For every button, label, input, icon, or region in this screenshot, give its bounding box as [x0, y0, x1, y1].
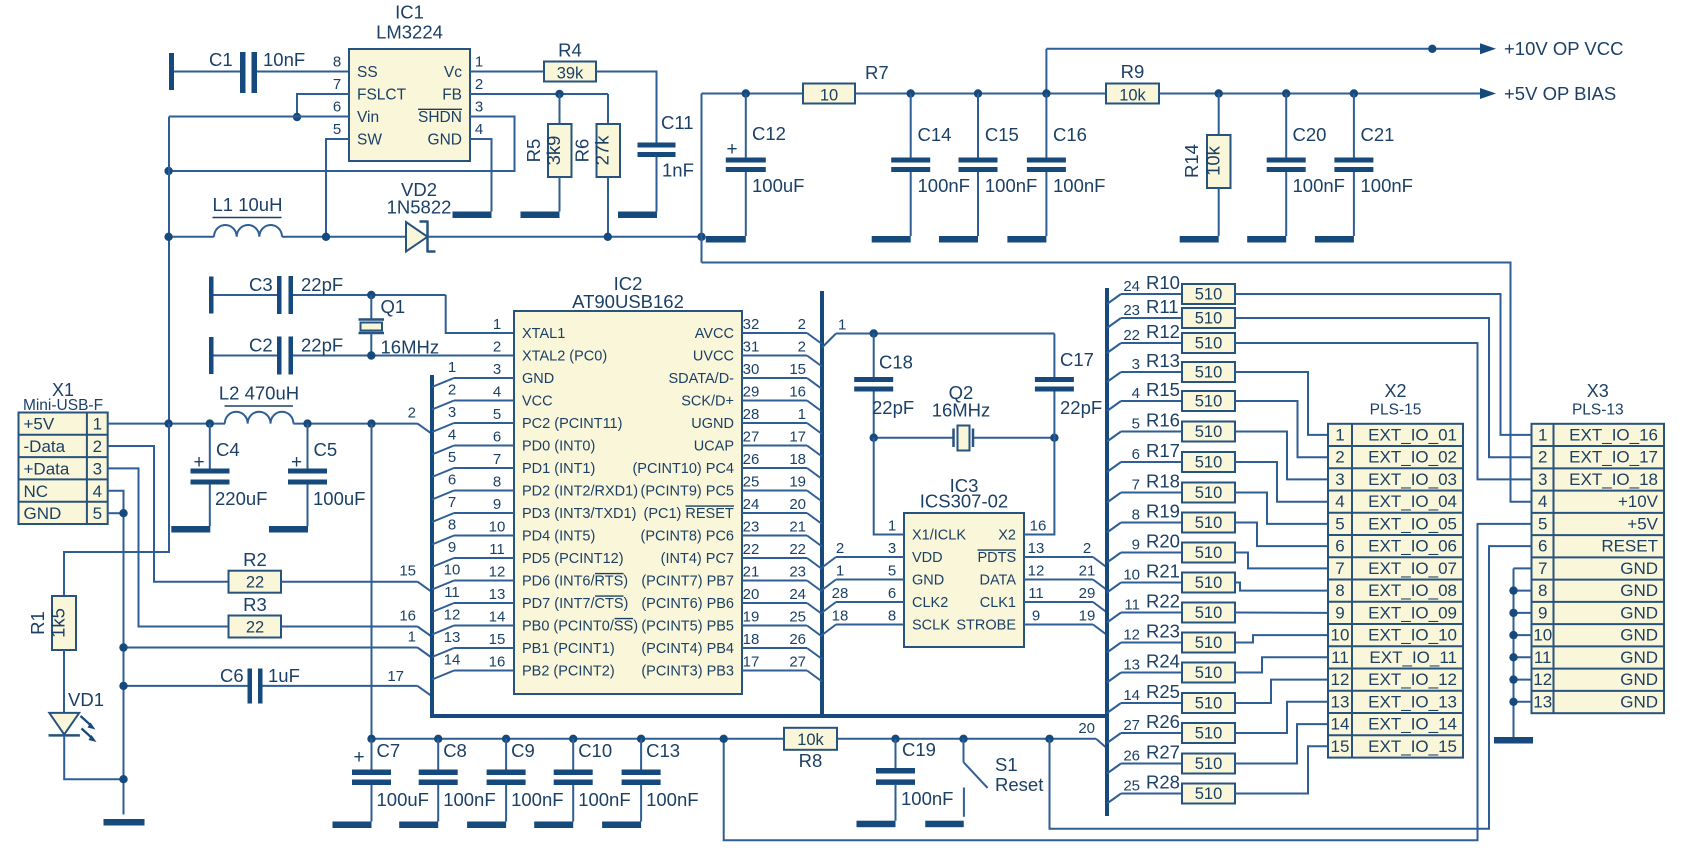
svg-text:AVCC: AVCC: [695, 326, 734, 342]
svg-text:(PC1) RESET: (PC1) RESET: [644, 506, 734, 522]
ground R5: [521, 212, 560, 219]
svg-text:15: 15: [789, 361, 806, 378]
svg-text:510: 510: [1195, 335, 1223, 353]
node +10V line: [1428, 45, 1436, 53]
resistor R5 3k9: [559, 94, 561, 124]
svg-text:+: +: [726, 139, 737, 160]
node C2-Q1: [367, 351, 375, 359]
capacitor C10 100nF: [569, 735, 577, 743]
svg-text:1: 1: [1538, 425, 1547, 444]
capacitor C21 100nF: [1350, 89, 1358, 97]
svg-text:EXT_IO_05: EXT_IO_05: [1368, 514, 1457, 533]
svg-text:C5: C5: [314, 439, 338, 460]
svg-text:SS: SS: [357, 64, 378, 81]
svg-text:C4: C4: [216, 439, 240, 460]
svg-text:12: 12: [1533, 670, 1552, 689]
resistor R10 510: [1107, 294, 1121, 304]
node C18 top: [870, 329, 878, 337]
svg-text:EXT_IO_13: EXT_IO_13: [1368, 692, 1457, 711]
capacitor C3 22pF: [209, 277, 214, 314]
svg-text:CLK2: CLK2: [912, 595, 948, 611]
svg-text:+Data: +Data: [24, 459, 70, 478]
svg-text:2: 2: [798, 339, 806, 356]
svg-text:12: 12: [444, 607, 461, 624]
svg-text:19: 19: [1079, 608, 1096, 625]
node C6-row: [119, 682, 127, 690]
wire VD2 cathode: [428, 236, 702, 238]
wire crystal rail top: [822, 334, 836, 348]
svg-text:16: 16: [789, 384, 806, 401]
svg-text:R8: R8: [799, 750, 823, 771]
node Q2 right: [1050, 434, 1058, 442]
svg-text:DATA: DATA: [979, 573, 1016, 589]
svg-text:PD1 (INT1): PD1 (INT1): [522, 461, 595, 477]
resistor bus: [1105, 288, 1109, 816]
node VCC-feed: [367, 419, 375, 427]
wire GND row: [124, 647, 418, 649]
svg-text:SDATA/D-: SDATA/D-: [668, 371, 734, 387]
wire -Data to R2: [108, 446, 229, 582]
svg-text:510: 510: [1195, 286, 1223, 304]
inductor L1 10uH: [169, 236, 214, 238]
svg-text:22: 22: [246, 574, 264, 592]
svg-text:EXT_IO_01: EXT_IO_01: [1368, 425, 1457, 444]
svg-text:1nF: 1nF: [662, 160, 694, 181]
capacitor C18 22pF: [873, 334, 875, 378]
svg-text:26: 26: [1123, 748, 1140, 765]
resistor R6 27k: [607, 94, 609, 124]
wire Vc pin1: [470, 71, 544, 73]
svg-text:GND: GND: [428, 132, 462, 149]
LED VD1: [49, 713, 79, 735]
resistor R13 510: [1107, 372, 1121, 382]
svg-text:7: 7: [1538, 559, 1547, 578]
svg-text:17: 17: [789, 429, 806, 446]
svg-text:VCC: VCC: [522, 394, 553, 410]
svg-text:EXT_IO_15: EXT_IO_15: [1368, 737, 1457, 756]
node rail-L1: [164, 233, 172, 241]
node X1-rail: [164, 419, 172, 427]
svg-text:27: 27: [789, 654, 806, 671]
svg-text:CLK1: CLK1: [980, 595, 1016, 611]
svg-text:100nF: 100nF: [511, 789, 563, 810]
svg-text:29: 29: [743, 384, 760, 401]
svg-text:9: 9: [1132, 537, 1140, 554]
svg-text:IC1: IC1: [395, 2, 424, 23]
svg-text:14: 14: [1331, 715, 1350, 734]
resistor R22 510: [1107, 613, 1121, 623]
resistor R27 510: [1107, 764, 1121, 774]
svg-text:EXT_IO_18: EXT_IO_18: [1569, 470, 1658, 489]
svg-text:10: 10: [489, 519, 506, 536]
svg-text:C17: C17: [1060, 349, 1094, 370]
svg-text:5: 5: [93, 504, 102, 523]
svg-text:XTAL2 (PC0): XTAL2 (PC0): [522, 349, 607, 365]
svg-text:15: 15: [489, 631, 506, 648]
svg-text:GND: GND: [1620, 692, 1658, 711]
svg-text:100nF: 100nF: [1293, 175, 1345, 196]
svg-text:27k: 27k: [592, 135, 613, 166]
wire +10V to X3 pin4: [702, 263, 1532, 502]
svg-text:21: 21: [789, 519, 806, 536]
svg-text:510: 510: [1195, 310, 1223, 328]
svg-text:18: 18: [743, 631, 760, 648]
svg-text:25: 25: [789, 609, 806, 626]
wire +10V OP VCC: [1045, 49, 1047, 94]
svg-text:LM3224: LM3224: [376, 22, 443, 43]
capacitor C17 22pF: [1053, 334, 1055, 378]
svg-text:R25: R25: [1146, 681, 1180, 702]
svg-text:R21: R21: [1146, 561, 1180, 582]
svg-text:PLS-13: PLS-13: [1572, 402, 1624, 419]
capacitor C9 100nF: [502, 735, 510, 743]
svg-text:1: 1: [93, 415, 102, 434]
svg-text:PD2 (INT2/RXD1): PD2 (INT2/RXD1): [522, 484, 638, 500]
crystal Q1 16MHz: [370, 295, 372, 320]
wire VCC feed down: [371, 424, 373, 739]
svg-text:3: 3: [888, 540, 896, 557]
wire VCC cap row: [372, 738, 785, 740]
capacitor C1: [169, 53, 174, 90]
svg-text:R27: R27: [1146, 742, 1180, 763]
svg-text:(PCINT10) PC4: (PCINT10) PC4: [632, 461, 734, 477]
svg-text:100nF: 100nF: [918, 175, 970, 196]
svg-text:100uF: 100uF: [752, 175, 804, 196]
svg-text:R6: R6: [572, 139, 593, 163]
svg-text:10: 10: [820, 87, 838, 105]
svg-text:UCAP: UCAP: [694, 439, 734, 455]
svg-text:100nF: 100nF: [1053, 175, 1105, 196]
svg-text:10k: 10k: [1119, 87, 1146, 105]
wire R4 to C11: [596, 72, 657, 143]
svg-text:15: 15: [399, 563, 416, 580]
svg-text:4: 4: [1538, 492, 1547, 511]
svg-text:C15: C15: [985, 124, 1019, 145]
svg-text:100nF: 100nF: [985, 175, 1037, 196]
svg-text:Mini-USB-F: Mini-USB-F: [23, 397, 103, 414]
svg-text:8: 8: [448, 517, 456, 534]
svg-text:GND: GND: [1620, 670, 1658, 689]
resistor R4 39k: [544, 62, 596, 82]
svg-text:11: 11: [1124, 597, 1140, 614]
svg-text:R24: R24: [1146, 651, 1180, 672]
svg-text:3: 3: [475, 99, 483, 116]
node Q2 left: [870, 434, 878, 442]
svg-text:10nF: 10nF: [263, 49, 305, 70]
svg-text:7: 7: [1335, 559, 1344, 578]
capacitor C15 100nF: [974, 89, 982, 97]
svg-text:+5V: +5V: [24, 415, 55, 434]
svg-text:22: 22: [1123, 327, 1140, 344]
svg-text:(PCINT4) PB4: (PCINT4) PB4: [641, 641, 734, 657]
svg-text:XTAL1: XTAL1: [522, 326, 565, 342]
wire FSLCT pin7: [297, 94, 349, 117]
svg-text:22pF: 22pF: [872, 397, 914, 418]
svg-text:5: 5: [448, 449, 456, 466]
wire +5V OP BIAS arrow: [1480, 88, 1496, 99]
svg-text:1: 1: [493, 316, 501, 333]
svg-text:22pF: 22pF: [1060, 397, 1102, 418]
wire +5V to X3 pin5: [724, 524, 1532, 840]
svg-text:2: 2: [1538, 448, 1547, 467]
svg-text:4: 4: [1335, 492, 1344, 511]
wire SW pin5: [326, 139, 349, 237]
svg-text:R7: R7: [865, 62, 889, 83]
svg-text:4: 4: [1132, 385, 1140, 402]
resistor R12 510: [1107, 343, 1121, 353]
ground X3: [1494, 737, 1533, 744]
resistor R21 510: [1107, 583, 1121, 593]
capacitor C2 22pF: [209, 337, 214, 374]
svg-text:13: 13: [1028, 540, 1045, 557]
svg-text:8: 8: [888, 608, 896, 625]
svg-text:X1/ICLK: X1/ICLK: [912, 528, 966, 544]
svg-text:2: 2: [1083, 540, 1091, 557]
svg-text:C9: C9: [511, 740, 535, 761]
svg-text:28: 28: [832, 585, 849, 602]
svg-text:12: 12: [1331, 670, 1350, 689]
svg-text:5: 5: [888, 563, 896, 580]
svg-text:EXT_IO_14: EXT_IO_14: [1368, 715, 1457, 734]
svg-text:27: 27: [743, 429, 760, 446]
svg-text:R12: R12: [1146, 321, 1180, 342]
svg-text:R9: R9: [1121, 61, 1145, 82]
svg-text:C21: C21: [1361, 124, 1395, 145]
resistor R9 10k: [1106, 84, 1159, 104]
diode VD2 1N5822: [406, 222, 428, 252]
svg-text:12: 12: [1028, 563, 1045, 580]
capacitor C20 100nF: [1282, 89, 1290, 97]
svg-text:2: 2: [448, 382, 456, 399]
svg-text:EXT_IO_04: EXT_IO_04: [1368, 492, 1457, 511]
resistor R24 510: [1107, 673, 1121, 683]
capacitor C14 100nF: [907, 89, 915, 97]
svg-text:6: 6: [1335, 537, 1344, 556]
wire R10 to X3 pin1: [1235, 294, 1532, 435]
svg-text:5: 5: [1538, 514, 1547, 533]
svg-text:R15: R15: [1146, 379, 1180, 400]
wire NC/GND column: [108, 491, 124, 815]
svg-text:NC: NC: [24, 482, 49, 501]
svg-text:13: 13: [489, 586, 506, 603]
wire FB pin2: [470, 93, 608, 95]
wire L1 to VD2: [282, 236, 406, 238]
svg-text:2: 2: [408, 405, 416, 422]
resistor R19 510: [1107, 523, 1121, 533]
svg-text:VDD: VDD: [912, 550, 943, 566]
svg-text:EXT_IO_03: EXT_IO_03: [1368, 470, 1457, 489]
svg-text:510: 510: [1195, 695, 1223, 713]
svg-text:22: 22: [743, 541, 760, 558]
svg-text:S1: S1: [995, 754, 1018, 775]
svg-text:3: 3: [448, 404, 456, 421]
svg-text:EXT_IO_16: EXT_IO_16: [1569, 425, 1658, 444]
svg-text:3: 3: [93, 459, 102, 478]
svg-text:21: 21: [1079, 563, 1096, 580]
svg-text:16MHz: 16MHz: [381, 337, 440, 358]
svg-text:PC2 (PCINT11): PC2 (PCINT11): [522, 416, 622, 432]
svg-text:510: 510: [1195, 364, 1223, 382]
capacitor C11 1nF: [638, 143, 676, 148]
svg-text:+: +: [291, 452, 302, 473]
svg-text:31: 31: [743, 339, 760, 356]
svg-text:10k: 10k: [1202, 145, 1223, 176]
svg-text:8: 8: [333, 54, 341, 71]
svg-text:5: 5: [1132, 416, 1140, 433]
svg-text:1: 1: [888, 518, 896, 535]
svg-text:17: 17: [387, 668, 404, 685]
svg-text:4: 4: [475, 121, 483, 138]
connector X3 PLS-13: [1532, 424, 1665, 713]
svg-text:(PCINT3) PB3: (PCINT3) PB3: [641, 664, 734, 680]
resistor R11 510: [1107, 318, 1121, 328]
svg-text:13: 13: [1123, 657, 1140, 674]
svg-text:X2: X2: [1384, 381, 1406, 401]
svg-text:100uF: 100uF: [313, 488, 365, 509]
svg-text:+10V: +10V: [1618, 492, 1659, 511]
svg-text:8: 8: [1132, 507, 1140, 524]
capacitor C5 100uF: [303, 419, 311, 427]
clock generator IC3 ICS307-02: [904, 513, 1024, 647]
svg-text:R26: R26: [1146, 711, 1180, 732]
node FB-R5: [555, 90, 563, 98]
svg-text:EXT_IO_12: EXT_IO_12: [1368, 670, 1457, 689]
svg-text:PD4 (INT5): PD4 (INT5): [522, 529, 595, 545]
svg-text:C2: C2: [249, 335, 273, 356]
svg-text:32: 32: [743, 316, 760, 333]
svg-text:1: 1: [838, 317, 846, 334]
svg-text:EXT_IO_10: EXT_IO_10: [1368, 626, 1457, 645]
svg-text:510: 510: [1195, 544, 1223, 562]
svg-text:R28: R28: [1146, 772, 1180, 793]
svg-text:EXT_IO_08: EXT_IO_08: [1368, 581, 1457, 600]
svg-text:C10: C10: [578, 740, 612, 761]
capacitor C4 220uF: [206, 419, 214, 427]
resistor R7 10: [803, 84, 855, 104]
svg-text:15: 15: [1331, 737, 1350, 756]
svg-text:R2: R2: [243, 549, 267, 570]
svg-text:R19: R19: [1146, 501, 1180, 522]
svg-text:4: 4: [93, 482, 102, 501]
svg-text:PD3 (INT3/TXD1): PD3 (INT3/TXD1): [522, 506, 636, 522]
wire R1 feed: [64, 424, 169, 596]
svg-text:510: 510: [1195, 454, 1223, 472]
wire +5V bias rail: [1159, 93, 1480, 95]
svg-text:23: 23: [789, 564, 806, 581]
svg-text:18: 18: [832, 608, 849, 625]
capacitor C12 100uF: [742, 89, 750, 97]
svg-text:16: 16: [489, 654, 506, 671]
svg-text:FSLCT: FSLCT: [357, 87, 407, 104]
svg-text:EXT_IO_02: EXT_IO_02: [1368, 448, 1457, 467]
svg-text:6: 6: [333, 99, 341, 116]
svg-text:220uF: 220uF: [215, 488, 267, 509]
svg-text:STROBE: STROBE: [956, 618, 1016, 634]
wire L2 right: [293, 423, 417, 425]
resistor R17 510: [1107, 462, 1121, 472]
svg-text:510: 510: [1195, 423, 1223, 441]
svg-text:9: 9: [1335, 603, 1344, 622]
svg-text:C14: C14: [918, 124, 952, 145]
svg-text:22: 22: [789, 541, 806, 558]
wire +10V rail: [702, 93, 804, 95]
svg-text:C18: C18: [879, 352, 913, 373]
svg-text:510: 510: [1195, 393, 1223, 411]
wire VCC to bus: [418, 424, 432, 434]
svg-text:R23: R23: [1146, 621, 1180, 642]
IC3 right wires: [1024, 556, 1093, 558]
svg-text:14: 14: [444, 652, 461, 669]
svg-text:3: 3: [1335, 470, 1344, 489]
node VCC-row X3 branch: [720, 735, 728, 743]
svg-text:510: 510: [1195, 785, 1223, 803]
wire R11 to X3 pin2: [1235, 318, 1532, 457]
svg-text:EXT_IO_11: EXT_IO_11: [1369, 648, 1457, 667]
svg-text:R4: R4: [558, 40, 582, 61]
wire R12 to X3 pin3: [1235, 343, 1532, 479]
resistor R23 510: [1107, 643, 1121, 653]
svg-text:13: 13: [444, 629, 461, 646]
svg-text:510: 510: [1195, 604, 1223, 622]
svg-text:5: 5: [1335, 514, 1344, 533]
svg-text:22: 22: [246, 619, 264, 637]
svg-text:12: 12: [1123, 627, 1140, 644]
wire left rail: [168, 117, 170, 424]
svg-text:510: 510: [1195, 484, 1223, 502]
svg-text:(PCINT8) PC6: (PCINT8) PC6: [641, 529, 734, 545]
IC3 left wires: [822, 557, 836, 568]
svg-text:R3: R3: [243, 594, 267, 615]
resistor R18 510: [1107, 493, 1121, 503]
wires R13-R28 to X2: [1235, 372, 1328, 435]
svg-text:19: 19: [789, 474, 806, 491]
wire crystal rail bottom: [874, 437, 954, 439]
svg-text:11: 11: [444, 584, 460, 601]
svg-text:14: 14: [1123, 687, 1140, 704]
resistor R26 510: [1107, 733, 1121, 743]
svg-text:100nF: 100nF: [443, 789, 495, 810]
ground R14: [1180, 236, 1219, 243]
svg-text:R13: R13: [1146, 350, 1180, 371]
svg-text:510: 510: [1195, 725, 1223, 743]
svg-text:2: 2: [798, 316, 806, 333]
svg-text:2: 2: [836, 540, 844, 557]
svg-text:PD0 (INT0): PD0 (INT0): [522, 439, 595, 455]
svg-text:13: 13: [1533, 692, 1552, 711]
svg-text:EXT_IO_09: EXT_IO_09: [1368, 603, 1457, 622]
svg-text:C6: C6: [220, 665, 244, 686]
svg-text:PDTS: PDTS: [978, 550, 1017, 566]
svg-text:23: 23: [743, 519, 760, 536]
svg-text:C13: C13: [646, 740, 680, 761]
wire VD1 cathode: [64, 735, 123, 779]
svg-text:24: 24: [789, 586, 806, 603]
svg-text:11: 11: [489, 541, 505, 558]
svg-text:12: 12: [489, 564, 506, 581]
svg-text:L2 470uH: L2 470uH: [219, 383, 299, 404]
wire Vin pin6: [169, 116, 349, 118]
svg-text:14: 14: [489, 609, 506, 626]
svg-text:6: 6: [493, 429, 501, 446]
svg-text:2: 2: [475, 76, 483, 93]
svg-text:AT90USB162: AT90USB162: [572, 291, 684, 312]
svg-text:510: 510: [1195, 634, 1223, 652]
wire SHDN pin3: [169, 117, 515, 172]
svg-text:24: 24: [1123, 278, 1140, 295]
svg-text:GND: GND: [1620, 603, 1658, 622]
svg-text:R1: R1: [27, 611, 48, 635]
node RESET corner: [1045, 735, 1053, 743]
